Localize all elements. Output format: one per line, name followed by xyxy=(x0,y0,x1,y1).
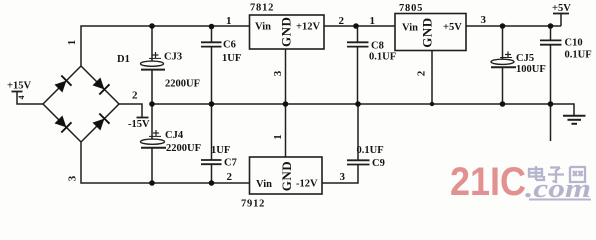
wire 7812 output to 7805 input xyxy=(324,25,395,27)
svg-text:3: 3 xyxy=(481,14,487,26)
watermark .com underline swash xyxy=(529,199,591,201)
svg-text:Vin: Vin xyxy=(402,23,418,34)
svg-text:+5V: +5V xyxy=(443,22,462,33)
svg-text:4: 4 xyxy=(17,96,26,100)
svg-text:2: 2 xyxy=(416,70,428,76)
svg-text:1UF: 1UF xyxy=(211,145,230,156)
svg-text:CJ4: CJ4 xyxy=(165,130,184,141)
svg-text:1: 1 xyxy=(226,15,232,27)
capacitor C10 xyxy=(540,26,562,141)
svg-text:+5V: +5V xyxy=(552,3,571,14)
regulator U1 7812 xyxy=(250,15,325,49)
capacitor C8 xyxy=(347,26,369,104)
regulator U2 7805 xyxy=(395,14,466,51)
svg-text:3: 3 xyxy=(340,171,346,183)
svg-text:1UF: 1UF xyxy=(222,53,241,64)
svg-text:3: 3 xyxy=(272,70,284,76)
svg-text:CJ3: CJ3 xyxy=(164,52,182,63)
svg-text:Vin: Vin xyxy=(255,22,271,33)
svg-text:0.1UF: 0.1UF xyxy=(565,50,592,61)
wire +15V input xyxy=(17,92,43,105)
diode bottom-right of D1 xyxy=(93,114,110,131)
svg-text:C7: C7 xyxy=(224,158,237,169)
svg-text:1: 1 xyxy=(272,134,284,140)
svg-text:0.1UF: 0.1UF xyxy=(357,145,384,156)
capacitor CJ3 xyxy=(141,26,166,104)
wire 7805 output to +5V xyxy=(466,25,561,27)
wire bottom rail node 3 xyxy=(81,142,250,183)
diode bottom-left of D1 xyxy=(55,116,72,133)
svg-text:GND: GND xyxy=(279,17,294,47)
svg-text:1: 1 xyxy=(66,40,78,46)
wire middle ground rail xyxy=(152,104,574,115)
svg-text:GND: GND xyxy=(420,17,435,47)
svg-text:7912: 7912 xyxy=(241,199,265,210)
capacitor CJ5 xyxy=(491,26,516,104)
svg-text:C9: C9 xyxy=(372,158,385,169)
regulator U3 7912 xyxy=(250,157,323,194)
diode top-left of D1 xyxy=(55,76,72,93)
svg-text:100UF: 100UF xyxy=(516,64,546,75)
svg-text:C10: C10 xyxy=(565,38,583,49)
wire 7912 output to C9 xyxy=(322,165,358,184)
svg-text:2: 2 xyxy=(227,171,233,183)
pin 3 of 7812 wire xyxy=(285,49,287,104)
terminal -15V xyxy=(137,117,149,119)
diode top-right of D1 xyxy=(93,78,110,95)
svg-text:+12V: +12V xyxy=(296,22,320,33)
svg-text:D1: D1 xyxy=(117,54,130,65)
svg-text:2200UF: 2200UF xyxy=(165,79,200,90)
svg-text:7812: 7812 xyxy=(250,3,274,14)
wire -15V branch from node 2 xyxy=(119,104,142,117)
svg-text:Vin: Vin xyxy=(256,179,272,190)
svg-text:2: 2 xyxy=(339,15,345,27)
svg-text:1: 1 xyxy=(370,15,376,27)
terminal +5V xyxy=(553,14,569,27)
svg-text:21IC: 21IC xyxy=(450,160,526,204)
svg-text:2: 2 xyxy=(132,90,138,102)
pin 1 of 7912 wire xyxy=(285,104,287,157)
svg-text:7805: 7805 xyxy=(399,3,423,14)
capacitor C6 xyxy=(201,26,222,104)
ground xyxy=(563,116,586,124)
capacitor C9 xyxy=(347,104,370,165)
svg-text:.com: .com xyxy=(525,174,591,203)
svg-text:CJ5: CJ5 xyxy=(516,53,534,64)
svg-text:C6: C6 xyxy=(223,40,236,51)
svg-text:3: 3 xyxy=(67,175,79,181)
watermark chinese 电子网 xyxy=(529,166,585,182)
terminal +15V xyxy=(12,91,23,93)
bridge rectifier D1 xyxy=(43,66,119,142)
svg-text:GND: GND xyxy=(279,161,294,191)
pin 2 of 7805 wire xyxy=(431,51,433,105)
svg-text:-15V: -15V xyxy=(128,119,150,130)
svg-text:C8: C8 xyxy=(371,41,384,52)
svg-text:2200UF: 2200UF xyxy=(166,143,201,154)
capacitor C7 xyxy=(201,104,222,183)
svg-text:-12V: -12V xyxy=(296,179,318,190)
wire top rail node 1 xyxy=(81,26,250,66)
svg-text:+15V: +15V xyxy=(7,81,31,92)
svg-text:0.1UF: 0.1UF xyxy=(369,52,396,63)
capacitor CJ4 xyxy=(141,104,167,183)
